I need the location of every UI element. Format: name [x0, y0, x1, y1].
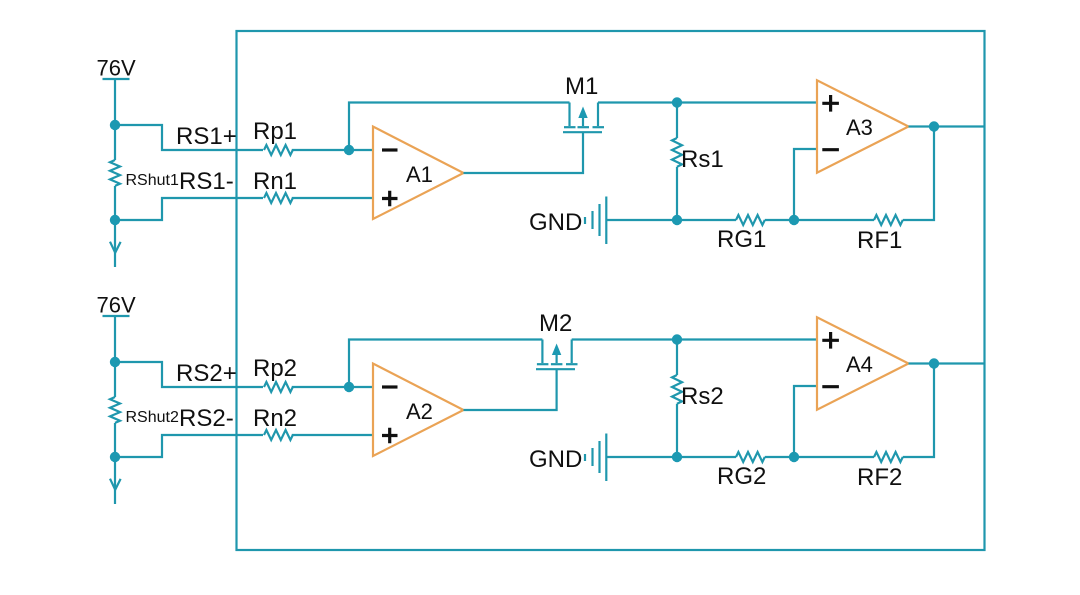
A4 minus sign: [822, 385, 839, 388]
node A1 inverting input: [344, 145, 354, 155]
wire M1 drain rail to A3: [598, 101, 817, 103]
resistor RG1: [736, 215, 765, 225]
svg-text:M2: M2: [539, 310, 572, 337]
svg-text:A4: A4: [846, 352, 873, 377]
svg-text:GND: GND: [529, 446, 582, 473]
ground symbol (ch2): [585, 434, 606, 482]
node feedback (ch2): [789, 452, 799, 462]
svg-text:A2: A2: [406, 399, 433, 424]
wire A1 output to M1 gate: [464, 133, 584, 173]
A3 plus sign: [822, 95, 839, 112]
resistor RF2: [874, 452, 903, 462]
svg-text:Rs2: Rs2: [681, 383, 724, 410]
wire node to top rail (ch1): [349, 103, 570, 151]
svg-text:Rp2: Rp2: [253, 355, 297, 382]
current arrow (ch2): [110, 479, 121, 490]
wire A4 output to box edge: [909, 362, 985, 364]
ground symbol (ch1): [585, 197, 606, 245]
svg-text:RShut2: RShut2: [126, 409, 179, 426]
op-amp A4: [817, 317, 909, 409]
wire feedback to A3 inverting input: [794, 149, 817, 220]
resistor Rp2: [264, 382, 293, 392]
wire RS1-: [115, 198, 263, 220]
wire feedback to A4 inverting input: [794, 386, 817, 457]
svg-text:RShut1: RShut1: [126, 172, 179, 189]
svg-text:RG2: RG2: [717, 463, 766, 490]
wire supply vertical lower (ch1): [114, 186, 116, 267]
node A4 output: [929, 358, 939, 368]
op-amp A2: [373, 364, 464, 457]
resistor RG2: [736, 452, 765, 462]
wire Rs2 bottom stub: [676, 404, 678, 457]
svg-text:A3: A3: [846, 115, 873, 140]
svg-text:Rn2: Rn2: [253, 405, 297, 432]
A2 plus sign: [382, 428, 398, 444]
wire RS2-: [115, 435, 263, 457]
wire RF2 to A4 output: [903, 364, 934, 458]
A1 minus sign: [382, 148, 398, 151]
node M2 rail (ch2): [672, 334, 682, 344]
mosfet M2: [536, 340, 578, 370]
A3 minus sign: [822, 148, 839, 151]
wire Rn1 to A1 non-inverting input: [292, 197, 373, 199]
svg-text:RS2-: RS2-: [179, 405, 234, 432]
node A2 inverting input: [344, 382, 354, 392]
wire A3 output to box edge: [909, 125, 985, 127]
supply bar 76V (ch2): [103, 315, 130, 317]
node supply upper (ch2): [110, 357, 120, 367]
wire node to top rail (ch2): [349, 340, 542, 388]
supply bar 76V (ch1): [103, 78, 130, 80]
node supply upper (ch1): [110, 120, 120, 130]
current arrow (ch1): [110, 242, 121, 253]
IC boundary box: [237, 31, 985, 550]
svg-text:RS1-: RS1-: [179, 168, 234, 195]
svg-text:RG1: RG1: [717, 226, 766, 253]
wire Rp1 to A1 inverting input: [292, 149, 373, 151]
A1 plus sign: [382, 191, 398, 207]
svg-text:A1: A1: [406, 162, 433, 187]
svg-text:GND: GND: [529, 209, 582, 236]
wire RS2+: [115, 362, 263, 387]
wire M2 drain rail to A4: [572, 338, 817, 340]
node M1 rail (ch1): [672, 97, 682, 107]
wire Rn2 to A2 non-inverting input: [292, 434, 373, 436]
node Rs1 bottom: [672, 215, 682, 225]
wire Rs1 bottom stub: [676, 167, 678, 220]
A4 plus sign: [822, 332, 839, 349]
wire supply vertical lower (ch2): [114, 423, 116, 504]
wire Rp2 to A2 inverting input: [292, 386, 373, 388]
resistor Rs2: [672, 375, 682, 404]
svg-text:RS2+: RS2+: [176, 360, 237, 387]
resistor RShut1: [110, 160, 120, 186]
svg-text:76V: 76V: [97, 56, 136, 81]
svg-text:M1: M1: [565, 73, 598, 100]
node supply lower (ch1): [110, 215, 120, 225]
svg-text:RS1+: RS1+: [176, 123, 237, 150]
wire Rs2 top stub: [676, 340, 678, 376]
node Rs2 bottom: [672, 452, 682, 462]
op-amp A1: [373, 127, 464, 220]
node A3 output: [929, 121, 939, 131]
svg-text:Rn1: Rn1: [253, 168, 297, 195]
mosfet M1: [563, 103, 604, 133]
svg-text:RF2: RF2: [857, 464, 902, 491]
svg-text:Rs1: Rs1: [681, 146, 724, 173]
svg-text:Rp1: Rp1: [253, 118, 297, 145]
resistor Rp1: [264, 145, 293, 155]
resistor Rn1: [264, 193, 293, 203]
resistor RShut2: [110, 397, 120, 423]
op-amp A3: [817, 80, 909, 172]
wire RG2 to feedback node: [765, 456, 874, 458]
A2 minus sign: [382, 385, 398, 388]
node feedback (ch1): [789, 215, 799, 225]
resistor Rn2: [264, 430, 293, 440]
wire supply vertical (ch1): [114, 80, 116, 160]
resistor Rs1: [672, 138, 682, 167]
svg-text:76V: 76V: [97, 293, 136, 318]
wire RS1+: [115, 125, 263, 150]
wire ground rail (ch2): [607, 456, 736, 458]
resistor RF1: [874, 215, 903, 225]
wire RF1 to A3 output: [903, 127, 934, 221]
node supply lower (ch2): [110, 452, 120, 462]
wire A2 output to M2 gate: [464, 370, 557, 410]
wire RG1 to feedback node: [765, 219, 874, 221]
wire Rs1 top stub: [676, 103, 678, 139]
wire ground rail (ch1): [607, 219, 736, 221]
wire supply vertical (ch2): [114, 317, 116, 397]
svg-text:RF1: RF1: [857, 227, 902, 254]
